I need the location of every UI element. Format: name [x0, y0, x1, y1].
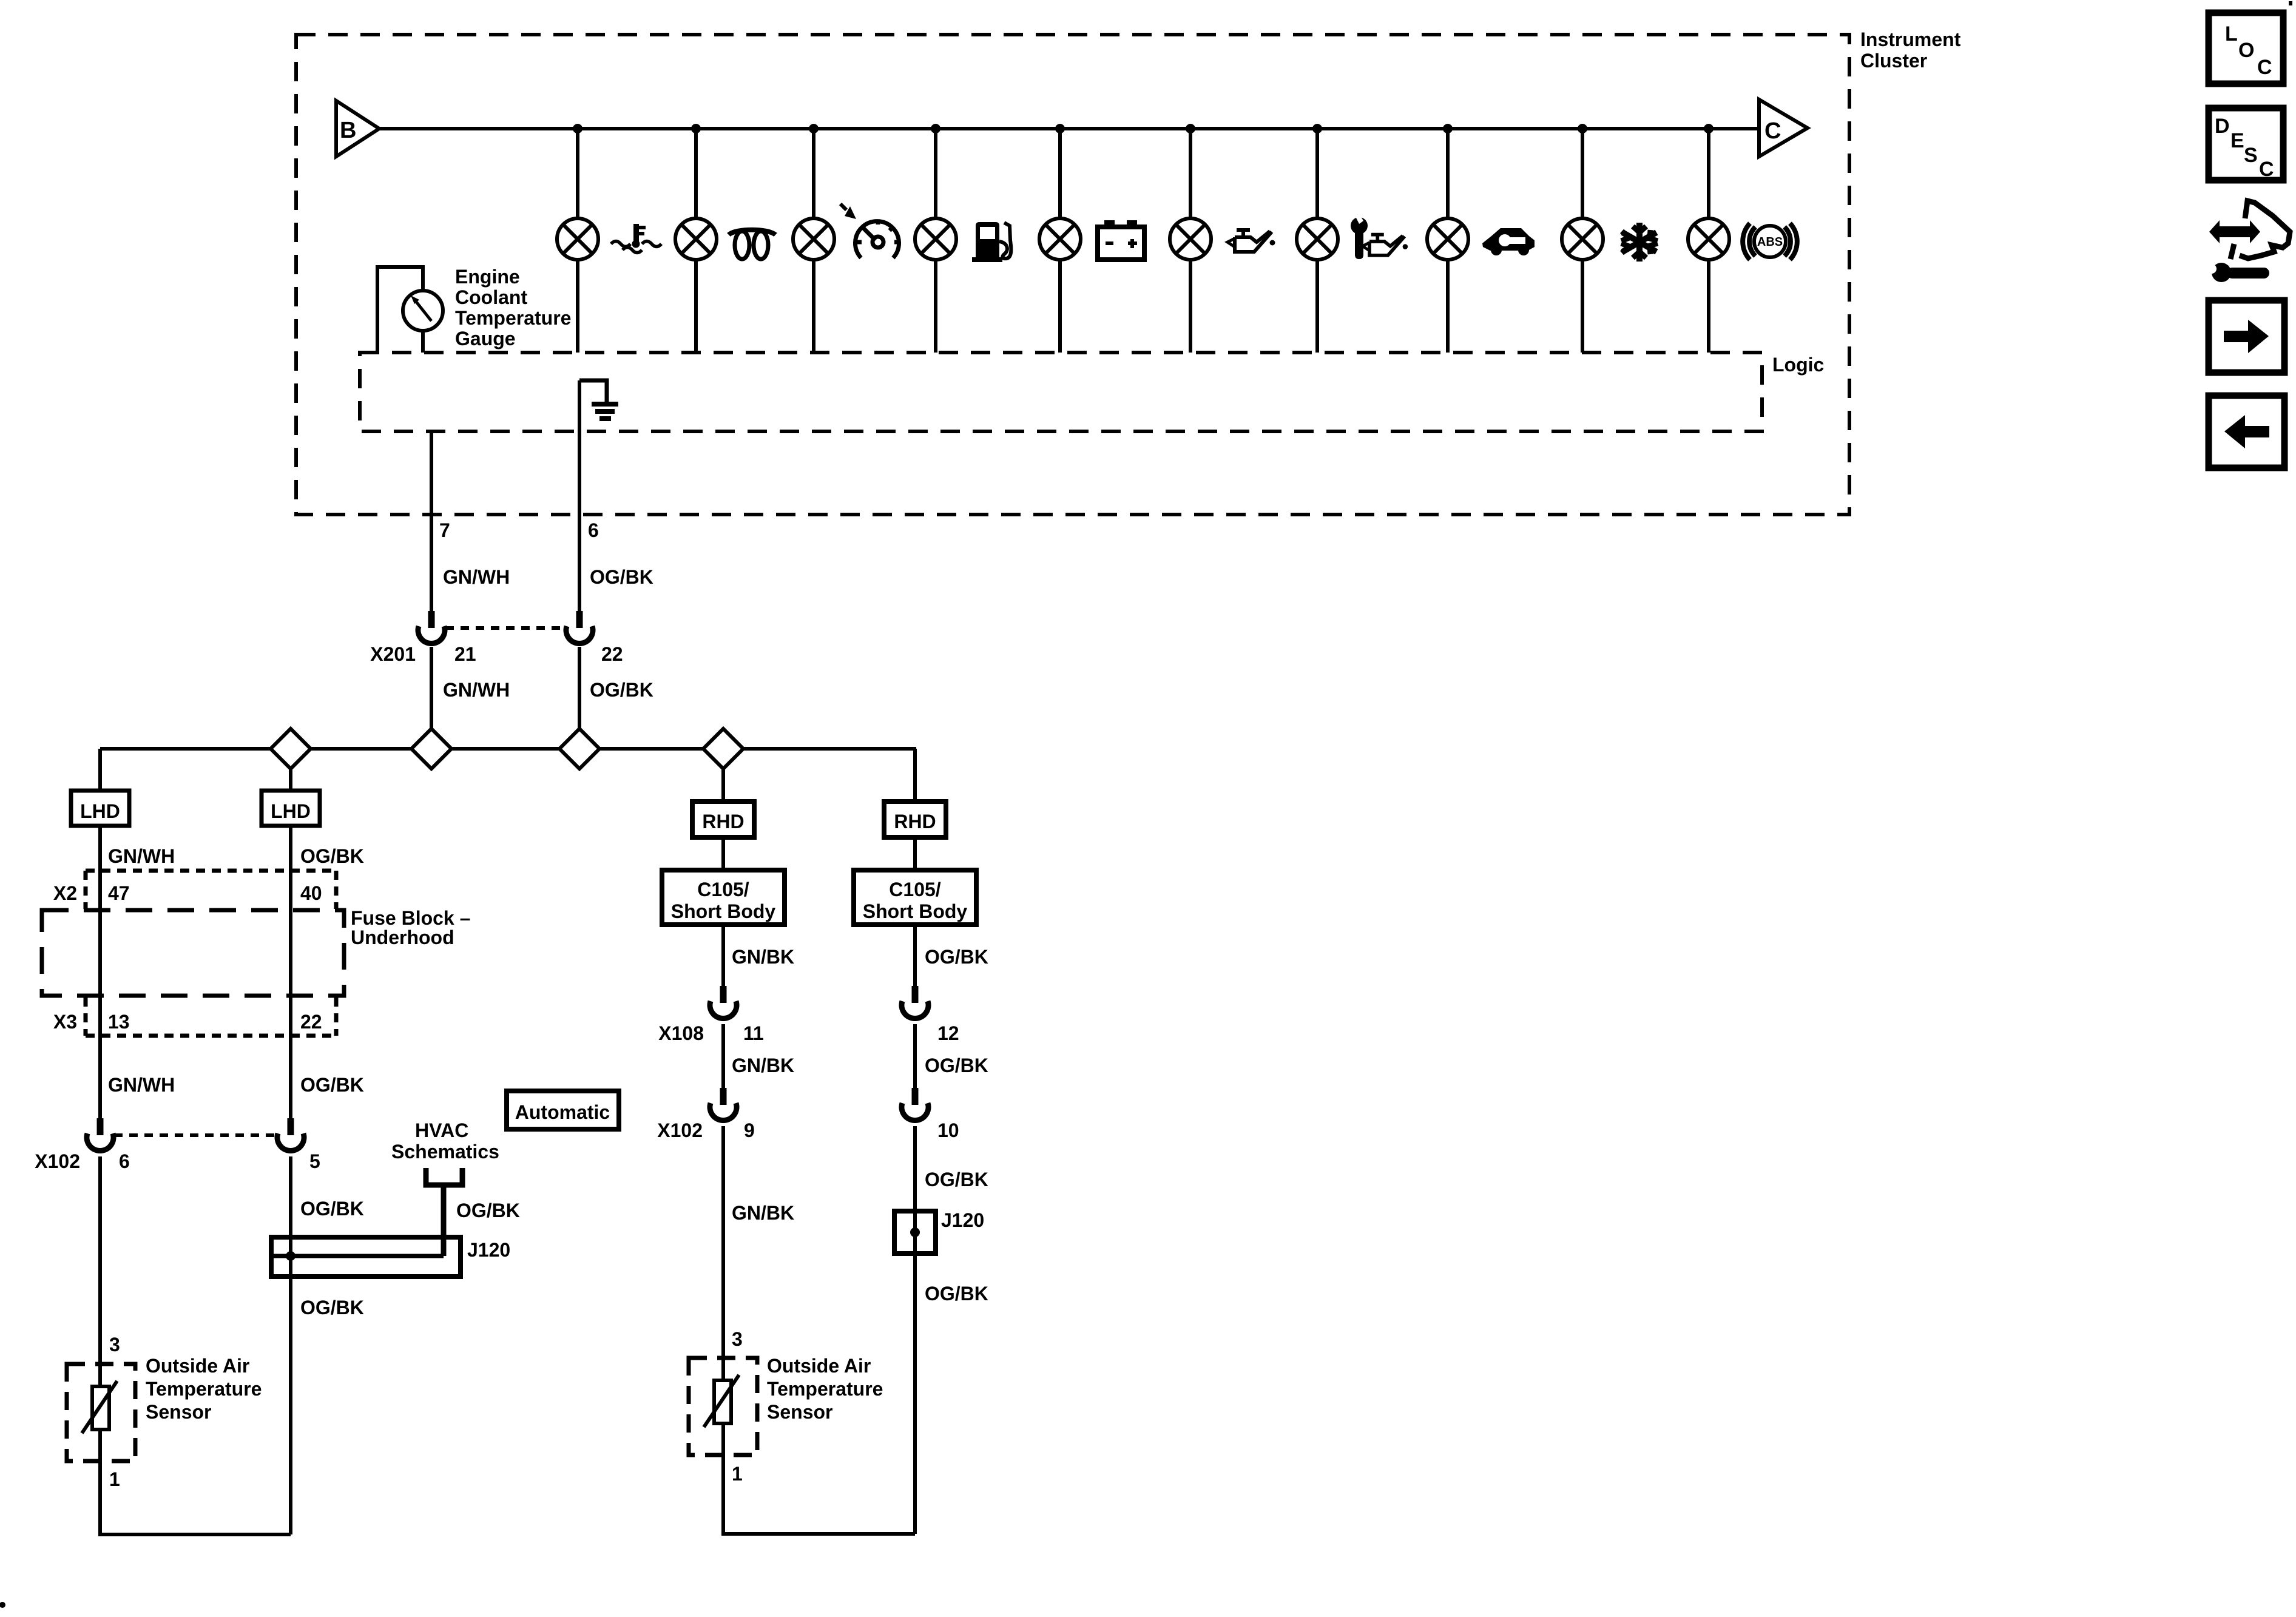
svg-text:Sensor: Sensor: [146, 1401, 211, 1423]
gauge ECT wire hook: [377, 267, 423, 353]
connector X2 row: [86, 871, 336, 909]
svg-text:C: C: [1764, 118, 1781, 144]
indicator lamp oil: [1170, 218, 1211, 260]
indicator lamp snowflake: [1562, 218, 1603, 260]
svg-text:C: C: [2257, 56, 2272, 79]
page mark bottom-left: [0, 1602, 5, 1608]
svg-text:X102: X102: [657, 1119, 703, 1141]
icon car door: [1482, 228, 1535, 255]
connector box C105 Short Body 2: [854, 870, 976, 925]
svg-text:OG/BK: OG/BK: [456, 1200, 520, 1221]
indicator lamp cruise: [793, 218, 834, 260]
svg-text:10: 10: [937, 1119, 959, 1141]
wire X102-9 to sensor: [721, 1126, 725, 1358]
sensor box left (Outside Air Temperature Sensor): [67, 1364, 135, 1461]
svg-text:GN/BK: GN/BK: [732, 946, 794, 968]
wire diamond4 to RHD1: [721, 769, 725, 802]
label Fuse Block Underhood: [351, 907, 470, 948]
wire lamp service-oil to logic: [1315, 260, 1319, 353]
svg-text:LHD: LHD: [80, 800, 120, 822]
wire right sensor loop: [723, 1455, 915, 1534]
label Engine Coolant Temperature Gauge: [455, 266, 571, 349]
wire inside right sensor box: [721, 1358, 725, 1380]
icon battery: [1098, 220, 1144, 260]
wire OG/BK pin 6: [578, 380, 581, 611]
svg-text:Temperature: Temperature: [767, 1378, 883, 1400]
svg-text:Gauge: Gauge: [455, 328, 516, 349]
splice diamond 1: [271, 729, 311, 769]
svg-text:LHD: LHD: [271, 800, 311, 822]
wire X102-6 to sensor: [98, 1156, 102, 1364]
svg-text:11: 11: [743, 1022, 764, 1044]
node junction cruise: [809, 124, 819, 133]
nav icon diagnostic (arrows and wrench): [2207, 201, 2290, 282]
wire to LHD 1: [98, 749, 102, 791]
page mark top-right: [2289, 1, 2292, 5]
svg-text:Logic: Logic: [1772, 354, 1824, 376]
svg-text:GN/BK: GN/BK: [732, 1055, 794, 1076]
wire X108-12 down: [913, 1024, 917, 1088]
icon fuel pump: [972, 222, 1011, 262]
node junction abs: [1704, 124, 1714, 133]
node junction oil: [1186, 124, 1195, 133]
svg-text:OG/BK: OG/BK: [300, 1074, 364, 1096]
icon ABS: [1743, 223, 1797, 260]
svg-text:22: 22: [601, 643, 623, 665]
svg-text:Temperature: Temperature: [455, 307, 571, 329]
wire gauge to logic: [421, 331, 425, 353]
wire lamp fuel to logic: [934, 260, 937, 353]
connector X102 pin 9: [710, 1088, 737, 1121]
icon oil pressure: [1227, 230, 1275, 252]
svg-text:5: 5: [309, 1150, 320, 1172]
wire bus to lamp 6: [1189, 129, 1192, 219]
svg-text:O: O: [2238, 39, 2254, 62]
svg-text:D: D: [2215, 115, 2230, 138]
svg-text:GN/WH: GN/WH: [108, 1074, 175, 1096]
svg-text:C105/: C105/: [697, 879, 749, 900]
svg-text:Outside Air: Outside Air: [767, 1355, 871, 1377]
option box LHD 2: [262, 791, 320, 826]
svg-text:HVAC: HVAC: [415, 1119, 468, 1141]
node junction service-oil: [1312, 124, 1322, 133]
wire left sensor loop: [100, 1461, 291, 1534]
wire diamond to LHD 2: [289, 769, 292, 791]
svg-text:C: C: [2259, 158, 2274, 181]
svg-text:OG/BK: OG/BK: [300, 1198, 364, 1220]
svg-text:RHD: RHD: [702, 811, 744, 832]
svg-text:7: 7: [439, 519, 450, 541]
wire bus to lamp 1: [576, 129, 579, 219]
connector X102 pin 6: [87, 1118, 113, 1151]
nav icon DESC: [2209, 108, 2283, 181]
wire bus to lamp 10: [1707, 129, 1710, 219]
box Automatic: [507, 1091, 619, 1129]
wire HVAC stem OG/BK: [441, 1185, 447, 1256]
node junction battery: [1055, 124, 1065, 133]
wire RHD1 to C105: [721, 837, 725, 870]
svg-text:GN/WH: GN/WH: [443, 566, 510, 588]
svg-text:OG/BK: OG/BK: [300, 845, 364, 867]
label Instrument Cluster: [1860, 29, 1961, 72]
off-page connector B: [336, 101, 379, 157]
wire X108-11 down: [721, 1024, 725, 1088]
indicator lamp coolant: [557, 218, 598, 260]
label Outside Air Temperature Sensor (right): [767, 1355, 883, 1423]
svg-text:6: 6: [119, 1150, 130, 1172]
svg-text:B: B: [340, 118, 356, 143]
svg-text:OG/BK: OG/BK: [300, 1297, 364, 1318]
wire bus to lamp 7: [1315, 129, 1319, 219]
svg-text:1: 1: [732, 1463, 743, 1485]
svg-text:OG/BK: OG/BK: [925, 1055, 988, 1076]
svg-text:Automatic: Automatic: [515, 1101, 610, 1123]
off-page fork HVAC: [426, 1168, 462, 1185]
node junction coolant: [573, 124, 582, 133]
indicator lamp glowplug: [675, 218, 717, 260]
svg-text:X201: X201: [370, 643, 416, 665]
nav icon LOC: [2209, 13, 2283, 84]
svg-text:OG/BK: OG/BK: [590, 679, 653, 701]
svg-text:Sensor: Sensor: [767, 1401, 832, 1423]
indicator lamp battery: [1039, 218, 1081, 260]
svg-text:Underhood: Underhood: [351, 927, 454, 948]
svg-text:Fuse Block –: Fuse Block –: [351, 907, 470, 929]
wire lamp glowplug to logic: [694, 260, 698, 353]
off-page connector C: [1759, 100, 1808, 157]
option box RHD 1: [692, 802, 754, 837]
svg-text:ABS: ABS: [1757, 235, 1783, 249]
svg-text:J120: J120: [467, 1239, 510, 1261]
wire C105-2 down: [913, 925, 917, 986]
wire bus B to C: [379, 127, 1759, 130]
connector X201 pin 22: [566, 611, 593, 644]
logic box: [360, 353, 1762, 431]
wire lamp snowflake to logic: [1581, 260, 1584, 353]
svg-text:Coolant: Coolant: [455, 286, 527, 308]
splice J120 left box: [271, 1237, 461, 1277]
thermistor right: [704, 1375, 739, 1427]
svg-text:OG/BK: OG/BK: [590, 566, 653, 588]
wire bus to lamp 9: [1581, 129, 1584, 219]
connector X201 dashed link: [445, 626, 566, 630]
icon cruise speedometer: [840, 204, 899, 258]
splice diamond 2: [411, 729, 451, 769]
node junction snowflake: [1578, 124, 1587, 133]
wire RHD2 to C105: [913, 837, 917, 870]
wire distribution bus: [100, 747, 916, 751]
svg-text:C105/: C105/: [889, 879, 941, 900]
wire LHD1 down: [98, 826, 102, 1118]
wire X102-5 to J120: [289, 1156, 292, 1277]
node junction car-door: [1443, 124, 1453, 133]
svg-text:X3: X3: [53, 1011, 77, 1033]
connector box C105 Short Body 1: [662, 870, 785, 925]
svg-text:13: 13: [108, 1011, 130, 1033]
node junction glowplug: [691, 124, 701, 133]
wire lamp battery to logic: [1058, 260, 1062, 353]
wire through J120 right: [913, 1211, 917, 1254]
svg-text:3: 3: [109, 1334, 120, 1355]
nav icon next arrow: [2209, 300, 2284, 373]
svg-text:Schematics: Schematics: [391, 1141, 499, 1163]
wire C105-1 down: [721, 925, 725, 986]
wire J120 left down: [289, 1277, 292, 1534]
connector X108 pin 12: [902, 986, 928, 1019]
splice J120 right box: [894, 1211, 936, 1254]
connector X201 pin 21: [418, 611, 445, 644]
svg-text:GN/WH: GN/WH: [108, 845, 175, 867]
indicator lamp fuel: [915, 218, 956, 260]
wire 21 to diamond: [430, 647, 433, 729]
wire 22 to diamond: [578, 647, 581, 729]
wire bus to lamp 2: [694, 129, 698, 219]
svg-text:Instrument: Instrument: [1860, 29, 1961, 50]
label Outside Air Temperature Sensor (left): [146, 1355, 262, 1423]
splice diamond 3: [559, 729, 599, 769]
option box RHD 2: [884, 802, 946, 837]
icon glow plug coil: [729, 230, 775, 259]
wire bus to lamp 8: [1446, 129, 1450, 219]
svg-text:Cluster: Cluster: [1860, 50, 1927, 72]
indicator lamp car-door: [1427, 218, 1468, 260]
svg-text:Short Body: Short Body: [671, 900, 776, 922]
wire LHD2 down: [289, 826, 292, 1118]
svg-text:GN/WH: GN/WH: [443, 679, 510, 701]
wire bus to lamp 4: [934, 129, 937, 219]
svg-text:OG/BK: OG/BK: [925, 946, 988, 968]
wire inside left sensor box: [98, 1364, 102, 1386]
svg-text:Engine: Engine: [455, 266, 520, 288]
svg-text:Short Body: Short Body: [863, 900, 968, 922]
connector X102 pin 10: [902, 1088, 928, 1121]
icon snowflake: [1621, 223, 1658, 262]
wire J120 right down: [913, 1254, 917, 1534]
wire lamp coolant to logic: [576, 260, 579, 353]
icon service oil (wrench and oil can): [1351, 214, 1368, 259]
svg-text:OG/BK: OG/BK: [925, 1169, 988, 1190]
thermistor left: [82, 1381, 117, 1433]
svg-text:E: E: [2230, 129, 2244, 152]
svg-text:RHD: RHD: [894, 811, 936, 832]
wire X102-10 to J120: [913, 1126, 917, 1211]
svg-text:J120: J120: [941, 1209, 984, 1231]
svg-text:1: 1: [109, 1468, 120, 1490]
indicator lamp service-oil: [1297, 218, 1338, 260]
option box LHD 1: [71, 791, 129, 826]
wire corner to RHD2: [913, 749, 917, 802]
ground in cluster logic: [579, 380, 618, 419]
svg-text:21: 21: [454, 643, 476, 665]
wire lamp cruise to logic: [812, 260, 815, 353]
svg-text:9: 9: [744, 1119, 755, 1141]
label HVAC Schematics: [391, 1119, 499, 1163]
splice diamond 4: [703, 729, 743, 769]
instrument cluster box: [296, 35, 1849, 515]
svg-text:22: 22: [300, 1011, 322, 1033]
svg-text:OG/BK: OG/BK: [925, 1283, 988, 1305]
svg-text:47: 47: [108, 882, 130, 904]
indicator lamp abs: [1688, 218, 1729, 260]
node splice dot J120: [286, 1251, 295, 1261]
svg-text:3: 3: [732, 1328, 743, 1350]
svg-text:GN/BK: GN/BK: [732, 1202, 794, 1224]
svg-text:L: L: [2225, 22, 2238, 46]
svg-text:X102: X102: [35, 1150, 80, 1172]
svg-text:S: S: [2244, 144, 2258, 167]
connector X3 row: [86, 998, 336, 1036]
svg-text:X2: X2: [53, 882, 77, 904]
gauge engine coolant temperature: [403, 291, 443, 331]
sensor box right (Outside Air Temperature Sensor): [689, 1358, 757, 1455]
nav icon back arrow: [2209, 396, 2284, 468]
wire lamp car-door to logic: [1446, 260, 1450, 353]
icon engine coolant temperature: [611, 224, 661, 253]
svg-text:X108: X108: [658, 1022, 704, 1044]
svg-text:Outside Air: Outside Air: [146, 1355, 249, 1377]
wire bus to lamp 3: [812, 129, 815, 219]
svg-text:40: 40: [300, 882, 322, 904]
connector X102 dashed link: [114, 1133, 277, 1137]
connector X108 pin 11: [710, 986, 737, 1019]
wire GN/WH pin 7: [430, 431, 433, 611]
wire lamp oil to logic: [1189, 260, 1192, 353]
svg-text:6: 6: [588, 519, 599, 541]
node junction fuel: [931, 124, 940, 133]
wire lamp abs to logic: [1707, 260, 1710, 353]
node splice dot J120 right: [910, 1227, 920, 1237]
svg-text:12: 12: [937, 1022, 959, 1044]
connector X102 pin 5: [277, 1118, 304, 1151]
svg-text:Temperature: Temperature: [146, 1378, 262, 1400]
fuse block underhood box: [42, 910, 344, 996]
wire bus to lamp 5: [1058, 129, 1062, 219]
